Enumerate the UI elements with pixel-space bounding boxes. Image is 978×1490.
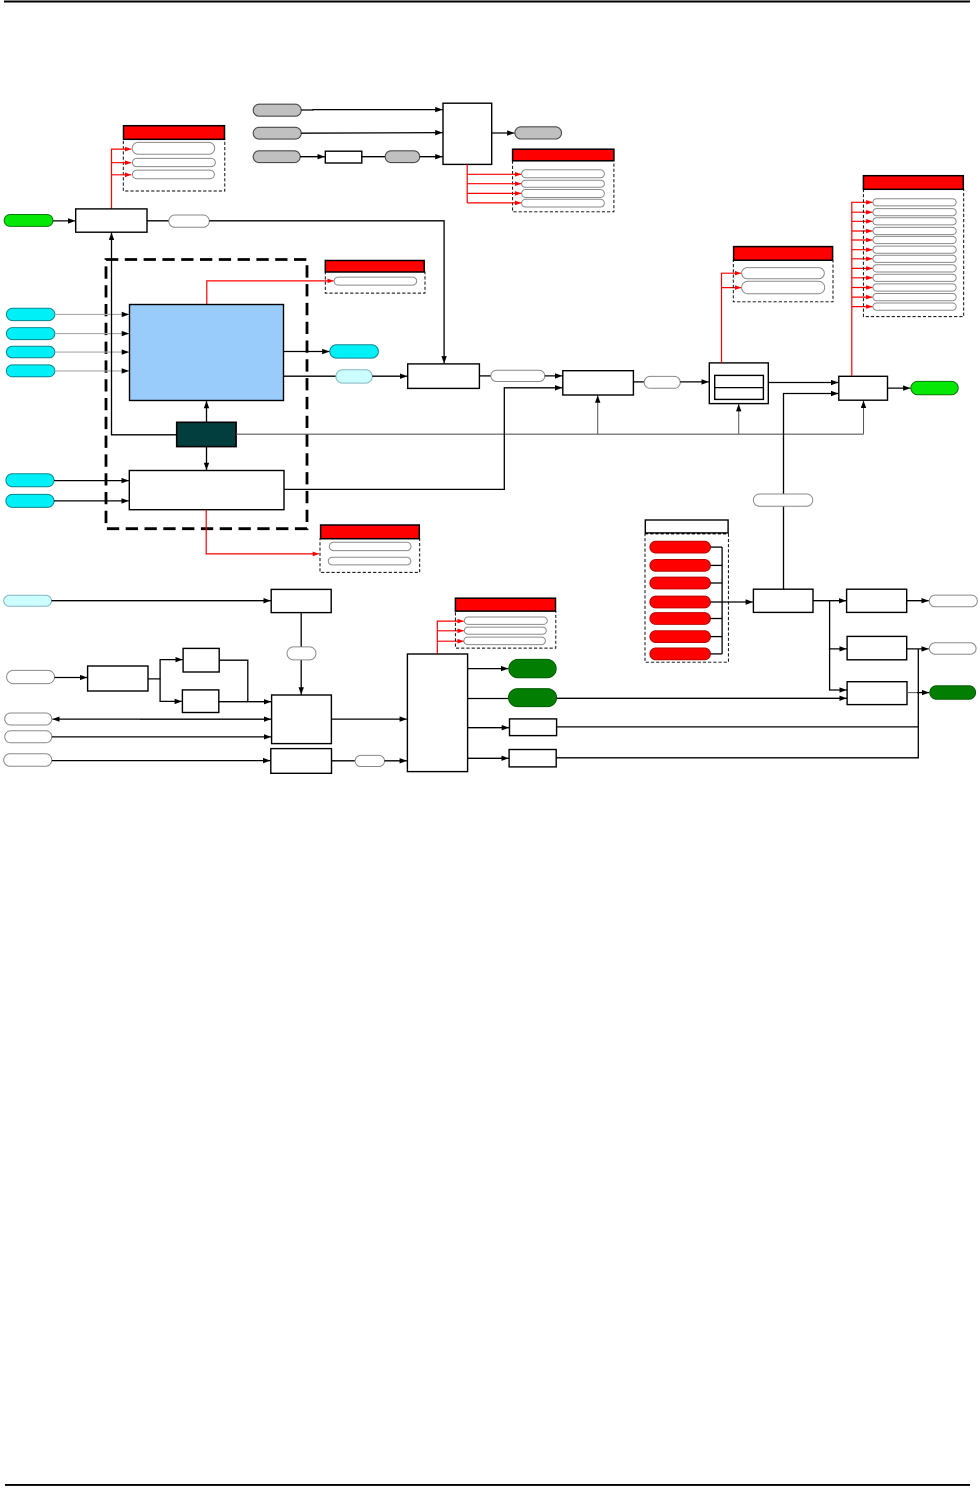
double box DBL divider — [715, 387, 764, 389]
annotation A5 pill 11 — [873, 294, 956, 301]
wire GP1 to W2 — [53, 220, 75, 222]
big box BB (bus creator) — [443, 103, 492, 164]
white box W8 — [271, 589, 331, 612]
wire P2 to W7 — [545, 375, 562, 377]
cyan input pill C3 — [6, 346, 54, 358]
red wire blue box to annotation A2 — [207, 281, 334, 304]
wire pill B to LGB — [52, 736, 271, 738]
annotation A6 red header — [321, 525, 420, 539]
red tag pill 3 — [650, 577, 711, 589]
bottom rule — [5, 1484, 970, 1486]
cyan input pill C7 — [6, 474, 54, 487]
gray wire C2 to blue box — [55, 333, 129, 335]
annotation A1 pill 1 — [132, 142, 215, 154]
annotation A5 pill 7 — [873, 255, 956, 262]
wire blue box to pale pill C6 — [284, 375, 336, 377]
red wire fan from big box to annotation A3 — [466, 164, 468, 203]
white pill A (data store) — [5, 713, 52, 725]
wire box A to box B and down to C and D — [813, 600, 846, 602]
top rule — [4, 1, 970, 3]
cyan input pill C8 — [6, 494, 54, 507]
wire W8 down through pill P5 to logic box — [300, 613, 302, 695]
red tag pill 4 — [650, 596, 711, 608]
annotation A5 pill 1 — [873, 199, 956, 206]
wire WB1 right to riser — [557, 726, 919, 728]
dark delay box DB — [177, 422, 236, 446]
pale cyan input pill C9 — [4, 595, 52, 606]
gray pill G5 — [515, 127, 562, 139]
wire C9 to box W8 — [52, 600, 271, 602]
white pill P3 — [644, 376, 680, 388]
wire G1 to big box — [301, 109, 442, 111]
red wire DBL to annotation A4 — [722, 273, 742, 363]
double box DBL outer — [709, 363, 768, 404]
gray wire C4 to blue box — [55, 370, 129, 372]
white pill P7 — [355, 755, 384, 766]
white box WB1 — [510, 719, 557, 736]
wire W6 output to W7 second input — [284, 388, 562, 490]
annotation A6 pill 2 — [328, 557, 411, 565]
annotation A2 red header — [325, 261, 424, 273]
annotation A4 red header — [734, 247, 833, 261]
white box BX2 — [839, 376, 888, 400]
wire C7 to W6 — [54, 480, 129, 482]
white box W1 — [325, 151, 362, 163]
annotation A5 pill 6 — [873, 246, 956, 253]
annotation A1 dashed box — [123, 139, 225, 191]
wire TLB through dark green pill DG2 to box D — [468, 698, 509, 700]
annotation A3 pill 3 — [522, 190, 605, 198]
white box W5 — [408, 364, 480, 389]
white input pill C — [4, 754, 52, 766]
tag list connector bracket — [710, 546, 722, 548]
subsystem dashed boundary — [106, 260, 307, 529]
wire dark box to W2 (feedback left) — [112, 233, 177, 435]
wire TLB to dark green pill DG1 — [468, 668, 509, 670]
annotation A7 dashed box — [455, 611, 555, 648]
tag list white header — [645, 520, 728, 533]
annotation A5 pill 8 — [873, 265, 956, 272]
red wire BX2 to annotation A5 — [852, 202, 873, 376]
white box WB2 — [509, 750, 556, 767]
tall box TLB (bus selector) — [407, 654, 467, 772]
wire C8 to W6 — [54, 500, 129, 502]
bus stub up into BX2 bottom — [863, 401, 865, 434]
annotation A6 pill 1 — [329, 542, 411, 550]
wire DB down to box W6 — [206, 447, 208, 470]
annotation A1 red header — [124, 126, 225, 140]
annotation A3 dashed box — [513, 161, 614, 212]
wire pill A line into LGB — [140, 718, 271, 720]
wire W1 to gray pill G4 — [362, 156, 385, 158]
wire LGB output to tall box — [331, 718, 406, 720]
gray bus wire from DB to right — [236, 433, 863, 435]
annotation A4 dashed box — [733, 260, 833, 302]
dark green pill DG1 — [509, 659, 556, 677]
white pill P2 — [491, 370, 545, 381]
annotation A3 pill 1 — [522, 170, 605, 178]
cyan output pill C5 — [330, 345, 379, 358]
wire box A up through pill P4 to BX2 — [784, 394, 839, 590]
green input pill GP1 — [4, 215, 53, 227]
annotation A5 red header — [863, 176, 963, 190]
green output pill GP2 — [911, 381, 958, 394]
annotation A3 pill 2 — [522, 180, 605, 187]
annotation A6 dashed box — [320, 539, 420, 573]
white box W10 — [271, 749, 332, 774]
red wire TLB to annotation A7 — [437, 621, 463, 654]
wire box C to pill R2 — [907, 648, 929, 650]
wire G4 to big box — [420, 156, 443, 158]
gray wire box D to green pill DG3 — [907, 692, 917, 694]
annotation A5 pill 10 — [873, 284, 956, 291]
wire W10 to pill P7 — [332, 760, 356, 762]
annotation A7 pill 1 — [464, 617, 547, 624]
red tag pill 1 — [650, 541, 711, 553]
annotation A5 pill 5 — [873, 236, 956, 243]
white output pill R2 — [929, 643, 976, 654]
annotation A7 red header — [455, 598, 555, 611]
small box SB2 — [182, 690, 218, 713]
gray wire C1 to blue box — [55, 313, 129, 315]
tag list dashed box — [645, 534, 728, 662]
wire P6 to box W9 — [55, 677, 88, 679]
wire TLB to white box WB2 — [468, 757, 509, 759]
gray pill G3 — [253, 151, 300, 163]
wire W5 to pill P2 — [479, 375, 490, 377]
gray pill G2 — [253, 127, 301, 139]
white pill P1 — [169, 215, 210, 227]
wire BB to gray pill G5 — [492, 132, 515, 134]
white box W9 — [88, 666, 148, 691]
wire BX2 to green output pill — [888, 387, 911, 389]
double box DBL inner table — [715, 375, 764, 399]
cyan input pill C2 — [6, 328, 54, 340]
wire TLB to white box WB1 — [468, 727, 509, 729]
wire G3 to unit box W1 — [300, 156, 325, 158]
white input pill P6 — [7, 670, 55, 683]
wire DB up to blue box — [206, 401, 208, 422]
small box SB1 — [183, 648, 219, 672]
annotation A3 pill 4 — [522, 199, 605, 207]
white box C — [847, 636, 907, 659]
annotation A7 pill 2 — [464, 627, 546, 634]
pale cyan pill C6 — [336, 370, 372, 383]
wire SB1+SB2 join to logic box — [219, 660, 248, 702]
annotation A4 pill 1 — [742, 268, 825, 279]
cyan input pill C4 — [6, 365, 54, 377]
logic box LGB — [272, 695, 332, 744]
gray pill G1 — [253, 104, 301, 116]
long wire P1 to box W5 top — [209, 221, 444, 363]
bus stub up into W7 bottom — [597, 396, 599, 435]
white pill P5 on wire — [287, 647, 316, 660]
wire P7 to tall box — [385, 760, 407, 762]
dark green output pill DG3 — [930, 686, 976, 699]
blue box BLB (main subsystem) — [130, 305, 284, 401]
annotation A1 pill 2 — [132, 158, 215, 166]
dark green pill DG2 — [509, 689, 557, 707]
gray pill G4 — [385, 151, 420, 163]
red wire fan to annotation A1 — [112, 149, 132, 209]
wire G2 to big box — [301, 132, 442, 135]
annotation A5 pill 3 — [873, 218, 956, 225]
white input pill B — [5, 731, 52, 743]
wire box B to pill R1 — [907, 600, 929, 602]
wire pill C to box W10 — [52, 760, 270, 762]
wire W2 to pill P1 — [147, 220, 169, 222]
cyan input pill C1 — [6, 308, 54, 320]
wire C6 to box W5 — [372, 375, 407, 377]
red tag pill 6 — [650, 631, 711, 643]
white output pill R1 — [929, 595, 977, 607]
annotation A5 pill 4 — [873, 227, 956, 234]
white box A — [753, 589, 813, 612]
annotation A1 pill 3 — [132, 170, 214, 179]
red tag pill 7 — [650, 648, 711, 660]
annotation A5 pill 12 — [873, 303, 956, 310]
annotation A5 pill 2 — [873, 209, 956, 216]
white pill P4 on riser — [753, 494, 812, 506]
white box W2 — [76, 209, 147, 232]
white box B — [847, 589, 907, 612]
white box W7 — [563, 371, 634, 395]
white box D — [847, 682, 907, 705]
wire DBL to BX2 — [768, 382, 838, 384]
gray wire C3 to blue box — [55, 351, 129, 353]
red tag pill 5 — [650, 613, 711, 625]
red wire W6 to annotation A6 — [206, 510, 319, 554]
wire W7 to pill P3 — [633, 381, 644, 383]
annotation A3 red header — [513, 149, 614, 161]
wire tag list to box A — [722, 601, 753, 603]
wire WB2 right to riser up to pill R2 junction — [556, 649, 918, 758]
wire LGB output left to pill A — [53, 718, 272, 720]
annotation A2 dashed box — [325, 272, 425, 293]
annotation A5 pill 9 — [873, 274, 956, 281]
red tag pill 2 — [650, 560, 711, 572]
annotation A4 pill 2 — [742, 281, 825, 294]
white box W6 — [129, 471, 284, 510]
annotation A2 pill — [334, 277, 417, 285]
wire W9 split to SB1 and SB2 — [148, 660, 183, 679]
bus stub up into double box bottom — [738, 404, 740, 434]
wire P3 to double box — [680, 381, 709, 383]
annotation A5 dashed box — [863, 189, 963, 316]
annotation A7 pill 3 — [464, 637, 546, 645]
wire blue box to cyan pill C5 — [284, 351, 330, 353]
